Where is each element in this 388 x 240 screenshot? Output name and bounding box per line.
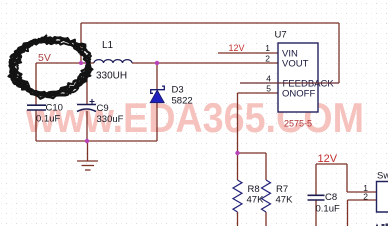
wire C10 drop (36,63)-(36,105) bbox=[35, 63, 37, 105]
wire SW pin2 down (347.5,200)-(347.5,226) bbox=[347, 200, 349, 226]
bottom edge text fragment bbox=[376, 224, 388, 227]
wire SW pin2 stub (347.5,200)-(376.5,200) bbox=[348, 199, 377, 201]
wire R8 top (237.5,153)-(237.5,180) bbox=[237, 153, 239, 180]
wire diode bottom (157,103)-(157,141) bbox=[156, 103, 158, 141]
svg-text:330UH: 330UH bbox=[96, 71, 127, 82]
wire C10 bottom (36,110)-(36,141) bbox=[35, 110, 37, 141]
svg-text:2: 2 bbox=[363, 192, 368, 202]
svg-text:ONOFF: ONOFF bbox=[282, 89, 315, 100]
capacitor C10 bbox=[27, 105, 46, 110]
svg-text:1: 1 bbox=[265, 43, 270, 53]
svg-text:330uF: 330uF bbox=[97, 114, 124, 125]
wire ground bus (36,141)-(157,141) bbox=[36, 140, 157, 142]
svg-text:5V: 5V bbox=[38, 52, 51, 64]
wire R7 top (266,153)-(266,180) bbox=[265, 153, 267, 180]
svg-text:0.1uF: 0.1uF bbox=[316, 204, 340, 215]
wire 5V rail (36,63)-(94,63) bbox=[36, 62, 94, 64]
wire C9 bottom (87,111)-(87,141) bbox=[86, 111, 88, 141]
wire SW pin1 stub (347,192)-(376.5,192) bbox=[347, 191, 377, 193]
wire C8 bottom (316,200)-(316,226) bbox=[315, 200, 317, 226]
svg-text:C8: C8 bbox=[325, 192, 337, 203]
svg-text:L1: L1 bbox=[102, 40, 114, 51]
svg-text:VOUT: VOUT bbox=[282, 59, 309, 70]
wire feedback top (81,23)-(339,23) bbox=[81, 22, 339, 24]
wire 12V bottom horizontal (316,164)-(347,164) bbox=[316, 163, 347, 165]
resistor R8 bbox=[233, 180, 242, 212]
ground symbol bbox=[77, 141, 98, 170]
wire R8 bottom (237.5,212)-(237.5,226) bbox=[237, 212, 239, 226]
wire ON/OFF pin5 (237.5,93)-(278,93) bbox=[238, 92, 279, 94]
wire divider branch (237.5,153)-(266,153) bbox=[238, 152, 267, 154]
wire R7 bottom (266,212)-(266,226) bbox=[265, 212, 267, 226]
svg-text:12V: 12V bbox=[229, 43, 245, 53]
connector SW box bbox=[377, 182, 388, 213]
svg-text:U7: U7 bbox=[275, 30, 287, 41]
svg-text:C9: C9 bbox=[97, 103, 109, 114]
junction ground bus bbox=[85, 139, 89, 143]
svg-text:0.1uF: 0.1uF bbox=[36, 114, 60, 125]
wire C8 top (316,164)-(316,195) bbox=[315, 164, 317, 195]
svg-text:5: 5 bbox=[266, 84, 271, 94]
svg-text:4: 4 bbox=[266, 74, 271, 84]
wire C9 drop (87,63)-(87,104) bbox=[86, 63, 88, 104]
wire feedback right vertical (339,23)-(339,83) bbox=[338, 23, 340, 83]
capacitor C9 polarized bbox=[77, 99, 96, 112]
inductor L1 coil bbox=[94, 60, 132, 63]
svg-text:2575-5: 2575-5 bbox=[284, 119, 312, 129]
wire rail inductor to VOUT pin2 (132,63)-(278,63) bbox=[132, 62, 278, 64]
wire feedback left vertical (81,23)-(81,63) bbox=[80, 23, 82, 63]
svg-text:D3: D3 bbox=[172, 85, 184, 96]
svg-text:12V: 12V bbox=[318, 153, 338, 165]
resistor R7 bbox=[262, 180, 271, 212]
diode D3 schottky bbox=[150, 86, 164, 102]
junction at rail and feedback bbox=[79, 61, 83, 65]
op-amp U7 box bbox=[278, 43, 318, 112]
svg-text:47K: 47K bbox=[247, 195, 265, 206]
svg-text:5822: 5822 bbox=[172, 96, 193, 107]
junction diode node bbox=[155, 61, 159, 65]
svg-text:C10: C10 bbox=[46, 103, 63, 114]
svg-text:R7: R7 bbox=[276, 184, 288, 195]
wire 12V to VIN pin1 (218,53)-(278,53) bbox=[218, 52, 278, 54]
junction at rail and C9 bbox=[85, 61, 89, 65]
svg-text:R8: R8 bbox=[248, 184, 260, 195]
svg-text:47K: 47K bbox=[276, 195, 294, 206]
wire diode top (157,63)-(157,89) bbox=[156, 63, 158, 89]
junction divider node bbox=[235, 151, 239, 155]
svg-text:Swi: Swi bbox=[377, 171, 388, 182]
hand-drawn scribble circle annotation bbox=[9, 36, 93, 99]
svg-text:2: 2 bbox=[265, 54, 270, 64]
capacitor C8 bbox=[308, 195, 325, 200]
wire 12V down to SW pin1 (347,164)-(347,192) bbox=[346, 164, 348, 192]
wire feedback pin4 (240,83)-(339,83) over text bbox=[240, 82, 339, 84]
wire pin5 down (237.5,93)-(237.5,153) bbox=[237, 93, 239, 153]
